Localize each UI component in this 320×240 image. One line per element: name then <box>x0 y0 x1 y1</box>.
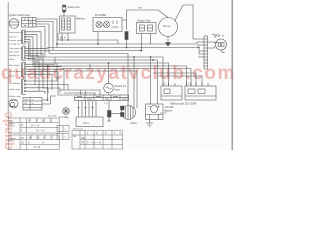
bus wire y68.5 <box>61 69 191 87</box>
svg-text:Winker relay: Winker relay <box>9 95 22 98</box>
wire battery feed a <box>150 57 152 104</box>
wire neutral up <box>108 63 110 83</box>
junction dot b <box>126 47 128 49</box>
bus wire y47.5 <box>48 47 199 49</box>
bus wire y73 right <box>153 73 196 86</box>
svg-text:Horn button: Horn button <box>9 64 21 67</box>
wire lamp line top <box>127 10 169 30</box>
wire lamp hook <box>221 50 225 53</box>
wire B4 pin3 <box>26 88 48 93</box>
svg-text:Motor: Motor <box>131 122 137 125</box>
bus wire y66 <box>35 66 187 86</box>
svg-text:O——O——O: O——O——O <box>86 142 101 145</box>
svg-text:HI: HI <box>21 137 24 140</box>
wire strip feed h2 <box>64 93 95 95</box>
wire battery down <box>149 120 151 124</box>
wire bus y40 <box>58 33 118 44</box>
svg-text:Starter sw: Starter sw <box>73 128 83 131</box>
svg-text:(A) 4: (A) 4 <box>60 37 66 40</box>
wire to connector k7 <box>198 56 204 58</box>
svg-text:off•on: off•on <box>9 59 15 61</box>
svg-text:kill sw: kill sw <box>9 76 15 78</box>
svg-text:lever sw: lever sw <box>9 36 17 39</box>
svg-text:ON: ON <box>81 137 85 140</box>
ignition coil T1 <box>107 101 121 122</box>
relay box U2 <box>60 16 76 33</box>
svg-text:Engine Stop: Engine Stop <box>138 20 152 23</box>
engine stop switch <box>137 23 157 34</box>
svg-text:Dimmer: Dimmer <box>9 138 16 140</box>
svg-text:O——O: O——O <box>36 130 45 133</box>
wire ignition pin1 <box>36 19 57 48</box>
wire B4 pin1 <box>26 63 57 81</box>
wire stop switch pin2 <box>150 34 152 45</box>
svg-text:O——O: O——O <box>31 125 40 128</box>
svg-text:Resistor: Resistor <box>76 18 85 21</box>
wire connector to lamp1 <box>208 41 219 44</box>
wire flasher out right <box>122 19 127 21</box>
svg-text:Spare Fuse: Spare Fuse <box>68 6 81 9</box>
connector bracket B3 <box>21 63 26 78</box>
junction dot g <box>108 62 110 64</box>
wire to connector k5 <box>199 50 204 52</box>
connector bracket B4 <box>21 79 26 95</box>
svg-text:Head·lt: Head·lt <box>212 34 220 37</box>
svg-text:O: O <box>28 142 30 145</box>
wire ignition pin3 <box>36 24 49 54</box>
svg-text:(4.3 2W): (4.3 2W) <box>48 116 57 118</box>
table T2 <box>72 131 123 150</box>
wire relay pin A <box>61 33 63 40</box>
bus wire y44 <box>57 43 197 45</box>
wire to connector k4 <box>199 48 204 55</box>
svg-text:lamp: lamp <box>115 89 121 92</box>
svg-text:A.C.Mag: A.C.Mag <box>59 116 69 119</box>
svg-text:O: O <box>42 142 44 145</box>
wire B2 pin2 <box>26 50 51 52</box>
wire B2 pin5 <box>26 58 35 85</box>
svg-text:xx: xx <box>32 100 34 102</box>
svg-text:passing sw: passing sw <box>9 44 20 46</box>
wire B1 pin4 <box>26 39 30 57</box>
wire B3 pin5 <box>26 74 52 90</box>
svg-text:Lic. xxx: Lic. xxx <box>160 113 167 115</box>
starter motor M <box>121 82 138 120</box>
magneto rotor circle <box>63 108 70 115</box>
wire gauge right to top <box>175 5 193 39</box>
wire ignition pin2 <box>36 22 53 51</box>
connector strip CN2 <box>75 95 129 101</box>
connector bracket B1 <box>21 30 26 44</box>
wire strip feeds up1 <box>80 90 82 95</box>
wire horn out1 <box>42 66 48 100</box>
svg-text:Turn: Turn <box>9 120 13 122</box>
wire B4 pin2 <box>26 84 68 90</box>
svg-text:Ignition Switch Assy: Ignition Switch Assy <box>9 14 31 17</box>
ground gauge <box>166 43 171 47</box>
svg-text:C.D.I.: C.D.I. <box>83 122 89 125</box>
wire neutral down <box>108 93 110 95</box>
svg-text:LO: LO <box>21 142 24 145</box>
wire resistor down <box>126 40 128 48</box>
wire B4 pin4 <box>26 91 45 94</box>
wire to connector k3 <box>198 45 204 48</box>
svg-text:HI: HI <box>29 137 32 140</box>
wire B1 pin1 <box>26 32 41 60</box>
svg-text:ST: ST <box>81 142 85 145</box>
junction dot h <box>133 56 135 58</box>
svg-text:switch: switch <box>9 125 15 128</box>
frame right border <box>231 0 233 150</box>
svg-text:xx: xx <box>32 103 34 105</box>
junction dot f <box>152 59 154 61</box>
headlight lamp <box>215 35 227 50</box>
gauge circle U4 <box>159 18 178 37</box>
junction dot j <box>198 47 200 49</box>
table T1 group1 <box>8 118 59 133</box>
svg-text:Turn signal sw: Turn signal sw <box>9 47 23 50</box>
svg-text:2A: 2A <box>42 120 45 123</box>
svg-text:1 2 3: 1 2 3 <box>186 83 192 86</box>
junction dot a <box>97 43 99 45</box>
svg-text:Front brake sw: Front brake sw <box>9 31 23 34</box>
bus wire y71 <box>64 71 137 82</box>
wire fuse to relay box <box>63 12 65 16</box>
ground battery <box>146 123 153 127</box>
table T1 group2 <box>8 135 59 150</box>
svg-text:quadc: quadc <box>0 112 15 150</box>
svg-text:SW: SW <box>73 136 76 138</box>
fuse F1 <box>62 5 66 12</box>
svg-text:R•L winker: R•L winker <box>9 51 19 54</box>
right connector CN1 <box>204 36 208 69</box>
svg-text:switch: switch <box>9 140 15 143</box>
neutral indicator lamp <box>104 83 114 93</box>
connector bracket B2 <box>21 47 26 61</box>
wire gauge bottom ground <box>167 37 169 43</box>
junction dot d <box>56 43 58 45</box>
wire B3 pin3 <box>26 69 64 90</box>
wire motor feed a <box>133 57 135 108</box>
svg-text:LO: LO <box>36 137 39 140</box>
wire B3 pin2 <box>26 65 61 68</box>
wire stop switch pin1 <box>141 34 143 51</box>
bus wire y53.5 <box>49 54 128 106</box>
bus wire y60 <box>29 60 158 104</box>
svg-text:Oil·xxx: Oil·xxx <box>163 25 171 28</box>
svg-text:Tail/stop light 12V 21/5W: Tail/stop light 12V 21/5W <box>170 103 197 106</box>
wire B3 pin1 <box>26 57 55 64</box>
ignition switch S1 <box>9 18 36 29</box>
battery BT1 <box>146 104 164 120</box>
bus wire y50.5 <box>51 50 142 52</box>
svg-text:O—O: O—O <box>34 146 40 149</box>
wire B1 pin2 <box>26 34 37 63</box>
svg-text:Lighting sw: Lighting sw <box>9 54 20 57</box>
wire flasher bottom <box>97 32 99 44</box>
wire horn out2 <box>42 96 56 104</box>
flasher box U3 <box>93 18 122 32</box>
junction dot i <box>150 56 152 58</box>
svg-text:Dimmer switch: Dimmer switch <box>9 39 23 42</box>
resistor R1 <box>125 32 128 40</box>
svg-text:R: R <box>21 124 23 127</box>
junction dot c <box>140 50 142 52</box>
wire B2 pin4 <box>26 56 39 91</box>
bus wire y63 <box>33 63 169 86</box>
horn switch group <box>9 98 42 111</box>
wire B1 pin3 <box>26 37 33 66</box>
bus wire y57 <box>30 57 163 86</box>
svg-text:L handlebar: L handlebar <box>9 82 20 85</box>
wire strip feed h <box>60 90 100 95</box>
bus wire y76 right <box>157 76 202 86</box>
wire to connector k2 <box>197 42 204 44</box>
svg-text:signal: signal <box>9 123 15 125</box>
wire B3 pin4 <box>26 72 73 95</box>
wire relay pin B <box>67 33 69 40</box>
legend box b <box>57 134 69 140</box>
wire ignition pin4 <box>36 27 45 58</box>
svg-text:Starter button: Starter button <box>9 70 22 73</box>
wire B2 pin1 <box>26 47 48 50</box>
tail light box 2 <box>185 83 216 101</box>
wire loop mid1 <box>89 64 91 69</box>
wire B1 pin5 <box>26 42 29 60</box>
svg-text:FLASHER: FLASHER <box>95 14 106 17</box>
wire to connector k1 <box>193 38 204 40</box>
legend box a <box>57 126 69 132</box>
tail light box 1 <box>161 83 182 101</box>
CDI box U5 <box>76 101 103 127</box>
svg-text:switch assy: switch assy <box>9 88 21 91</box>
junction dot e <box>47 65 49 67</box>
wire B2 pin3 <box>26 53 60 93</box>
frame left border <box>7 2 9 118</box>
wire strip feeds up2 <box>85 91 87 95</box>
wire connector to lamp2 <box>208 46 215 48</box>
